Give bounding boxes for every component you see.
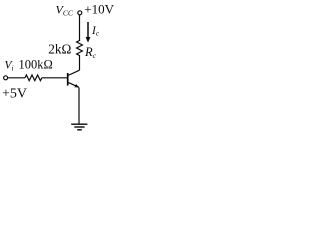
transistor Q1 collector lead bbox=[68, 70, 80, 75]
svg-text:VCC: VCC bbox=[56, 2, 74, 17]
node Vi terminal bbox=[4, 76, 8, 80]
svg-text:Rc: Rc bbox=[84, 45, 97, 60]
wire Vi terminal to resistor bbox=[8, 77, 25, 79]
ground bbox=[71, 124, 87, 130]
svg-text:Vi: Vi bbox=[5, 60, 14, 73]
svg-text:+5V: +5V bbox=[2, 87, 27, 102]
resistor Rc bbox=[77, 41, 83, 58]
transistor Q1 emitter arrowhead bbox=[75, 84, 79, 87]
wire resistor to collector bbox=[79, 58, 81, 71]
current arrow Ic bbox=[87, 22, 89, 38]
wire VCC to resistor bbox=[79, 15, 81, 41]
node VCC terminal bbox=[78, 11, 82, 15]
transistor Q1 emitter lead bbox=[68, 82, 79, 87]
svg-text:+10V: +10V bbox=[84, 2, 114, 17]
svg-text:100kΩ: 100kΩ bbox=[19, 58, 53, 72]
wire resistor to base bbox=[42, 77, 67, 79]
svg-text:Ic: Ic bbox=[91, 25, 100, 38]
resistor 100k bbox=[25, 75, 42, 81]
wire emitter to ground bbox=[78, 88, 80, 125]
svg-text:2kΩ: 2kΩ bbox=[48, 42, 71, 57]
transistor Q1 base bar bbox=[67, 73, 69, 86]
